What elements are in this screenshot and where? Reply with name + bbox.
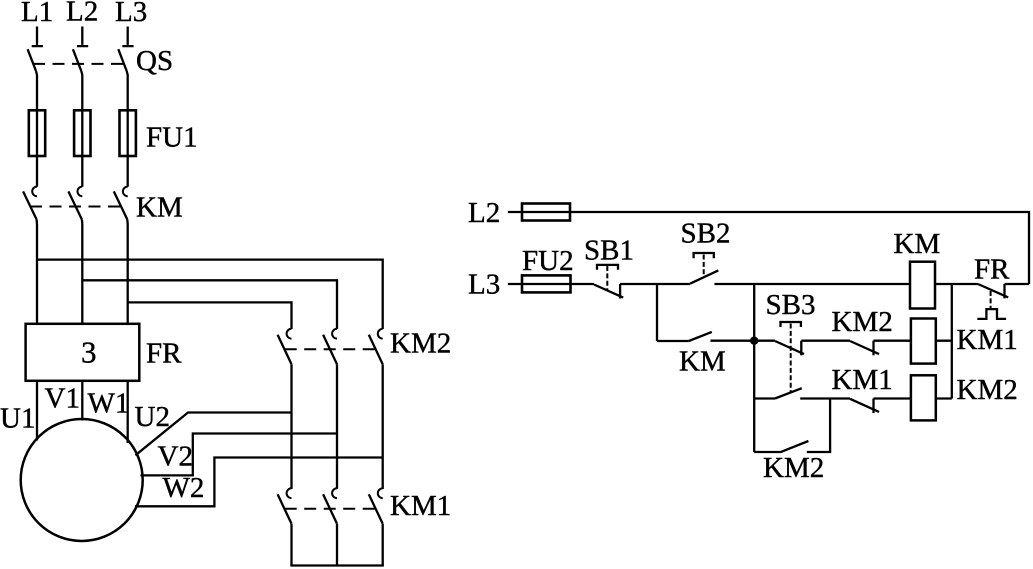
wire SB1 to SB2 with node A (620, 283, 690, 285)
wire KM coil to FR contact (935, 283, 978, 285)
svg-text:L3: L3 (115, 0, 147, 28)
contactor KM aux contact wire left (657, 340, 689, 342)
wire node A drop (656, 284, 658, 341)
wire motor W2 to KM2 pole C (135, 458, 383, 507)
switch QS pole 1 blade (28, 49, 36, 71)
wire star point bus (290, 564, 383, 566)
wire KM2 pole C down to KM1 pole C (382, 364, 384, 489)
pushbutton SB3 upper stop stub (800, 341, 802, 356)
contactor KM aux wire to dot (711, 340, 755, 342)
wire KM2 coil to right vertical (936, 397, 952, 399)
wire KM1 pole A to star bus (290, 524, 292, 566)
contactor KM2 interlock blade (850, 341, 879, 354)
contactor KM linkage dashed line (30, 206, 121, 208)
wire QS pole 3 to fuse and KM contact (127, 71, 128, 187)
wire bus phase2 to KM2 pole 2 (82, 280, 337, 329)
pushbutton SB2 cap (694, 253, 714, 258)
wire right common vertical (951, 284, 953, 399)
pushbutton SB2 blade (690, 270, 718, 283)
svg-text:KM2: KM2 (957, 374, 1018, 406)
wire KM1 pole B to star bus (336, 524, 338, 566)
wire L2 drop to QS fixed contact (77, 27, 88, 47)
svg-text:QS: QS (136, 45, 173, 77)
svg-text:W2: W2 (163, 472, 205, 504)
pushbutton SB1 cap (597, 265, 618, 270)
wire motor V2 to KM2 pole B (141, 434, 338, 476)
svg-text:V2: V2 (158, 441, 193, 473)
svg-text:KM1: KM1 (390, 490, 451, 522)
wire SB2 to KM coil row1 (715, 283, 911, 285)
switch QS pole 2 blade (73, 49, 81, 71)
wire FR box to motor U1 (36, 381, 38, 441)
svg-text:FR: FR (146, 337, 182, 369)
contactor KM main contact pole 2 blade (68, 191, 82, 219)
svg-text:SB2: SB2 (681, 217, 731, 249)
wire KM1 pole C to star bus (382, 524, 384, 566)
wire SB3 to KM2 interlock (801, 340, 850, 342)
svg-text:FR: FR (974, 253, 1010, 285)
svg-text:KM: KM (894, 228, 941, 260)
wire KM2 pole B down to KM1 pole B (336, 364, 338, 489)
wire L3 drop to QS fixed contact (122, 27, 133, 47)
svg-text:KM2: KM2 (832, 306, 893, 338)
pushbutton SB3 lower NO blade (775, 388, 802, 398)
svg-text:SB1: SB1 (584, 234, 634, 266)
svg-text:V1: V1 (45, 383, 80, 415)
wire FR contact to right edge (1005, 283, 1030, 285)
wire KM2 interlock to KM1 coil (874, 340, 911, 342)
contactor KM1 contact pole A circle (287, 488, 292, 498)
pushbutton SB1 stop stub (619, 284, 621, 299)
wire SB3 lower to KM1 interlock (800, 397, 850, 399)
fuse FU1 pole 2 (74, 110, 90, 156)
svg-text:FU2: FU2 (522, 245, 574, 277)
contactor KM2 contact pole A circle (287, 329, 292, 339)
svg-text:W1: W1 (88, 388, 130, 420)
fuse FU2 (522, 275, 571, 292)
switch QS pole 3 blade (118, 49, 126, 71)
fuse FU1 pole 1 (29, 110, 45, 156)
contactor KM2 contact pole C circle (378, 329, 383, 339)
wire L1 drop to QS fixed contact (32, 27, 43, 47)
svg-text:SB3: SB3 (766, 289, 816, 321)
wire motor U2 to KM2 pole A (135, 413, 291, 456)
wire L2 to fuse (508, 211, 570, 213)
svg-text:KM: KM (679, 345, 726, 377)
contactor KM1 contact pole C blade (369, 494, 383, 524)
thermal relay FR heater element (977, 309, 1006, 319)
svg-text:L2: L2 (66, 0, 98, 28)
svg-text:KM1: KM1 (832, 364, 893, 396)
contactor KM main contact pole 3 blade (114, 191, 128, 219)
pushbutton SB1 blade (594, 285, 623, 298)
wire FR box to motor W1 (127, 381, 129, 443)
wire KM2 pole A down to KM1 pole A (290, 364, 292, 489)
fuse FU1 pole 3 (120, 110, 136, 156)
wire KM1 interlock to KM2 coil (874, 397, 911, 399)
contactor KM1 interlock stop stub (872, 399, 874, 414)
pushbutton SB3 actuator dashed (790, 324, 792, 393)
coil KM (910, 262, 935, 309)
contactor KM main contact pole 1 circle (32, 187, 37, 197)
contactor KM2 contact pole A blade (278, 335, 292, 365)
svg-text:U1: U1 (0, 403, 35, 435)
switch QS linkage dashed line (33, 63, 130, 65)
pushbutton SB3 upper NC blade (775, 341, 804, 354)
contactor KM2 interlock stop stub (872, 341, 874, 356)
svg-text:U2: U2 (135, 401, 170, 433)
wire KM pole 2 down to FR box (81, 220, 84, 324)
wire L3 to fuse FU2 (508, 283, 571, 285)
coil KM2 (911, 375, 936, 420)
contactor KM1 linkage dashed line (285, 508, 378, 510)
fuse on L2 line (522, 204, 570, 221)
contactor KM2 linkage dashed line (285, 348, 378, 350)
thermal relay FR contact blade (978, 284, 1008, 297)
wire FU2 to SB1 (571, 283, 595, 285)
contactor KM2 contact pole B blade (323, 335, 337, 365)
contactor KM1 contact pole C circle (378, 488, 383, 498)
svg-text:L1: L1 (21, 0, 53, 28)
svg-text:KM: KM (136, 192, 183, 224)
thermal relay FR heater box (26, 324, 140, 381)
wire FR box to motor V1 (81, 381, 83, 421)
pushbutton SB2 actuator dashed (703, 255, 705, 278)
wire row2 dot to SB3 (754, 340, 775, 342)
wire QS pole 2 to fuse and KM contact (81, 71, 82, 187)
wire KM pole 1 down to FR box (35, 220, 38, 324)
coil KM1 (911, 319, 936, 364)
svg-text:KM1: KM1 (957, 324, 1018, 356)
contactor KM2 self hold blade (780, 441, 808, 452)
contactor KM1 contact pole B circle (332, 488, 337, 498)
pushbutton SB3 cap (781, 322, 801, 327)
contactor KM main contact pole 2 circle (78, 187, 83, 197)
thermal relay FR contact stop stub (1003, 284, 1005, 298)
contactor KM1 contact pole A blade (278, 494, 292, 524)
wire L2 rail to right edge and down to FR (570, 212, 1029, 284)
junction dot node B row2 (750, 337, 758, 345)
motor M circle (21, 419, 143, 541)
pushbutton SB1 actuator dashed (606, 266, 608, 291)
wire bus phase3 to KM2 pole 1 (128, 302, 292, 329)
contactor KM main contact pole 1 blade (23, 191, 36, 219)
contactor KM2 contact pole C blade (369, 335, 383, 365)
wire bus phase1 to KM2 pole 3 (37, 260, 383, 329)
contactor KM aux contact blade (689, 332, 712, 341)
wire KM1 coil to right vertical (936, 340, 952, 342)
svg-text:L2: L2 (468, 197, 500, 229)
wire row4 self hold from node B drop (754, 451, 780, 453)
wire KM2 self hold up to row3 (807, 399, 830, 453)
wire QS pole 1 to fuse and KM contact (36, 71, 37, 187)
contactor KM main contact pole 3 circle (123, 187, 128, 197)
svg-text:FU1: FU1 (146, 122, 198, 154)
contactor KM1 interlock blade (850, 399, 879, 412)
contactor KM2 contact pole B circle (332, 329, 337, 339)
wire node B drop (753, 284, 755, 452)
svg-text:L3: L3 (468, 268, 500, 300)
contactor KM1 contact pole B blade (323, 494, 337, 524)
wire KM pole 3 down to FR box (126, 220, 129, 324)
thermal relay FR actuator dashed (990, 291, 992, 309)
svg-text:KM2: KM2 (763, 452, 824, 484)
svg-text:3: 3 (81, 335, 97, 370)
svg-text:KM2: KM2 (390, 328, 451, 360)
wire row3 from node B drop (754, 397, 775, 399)
